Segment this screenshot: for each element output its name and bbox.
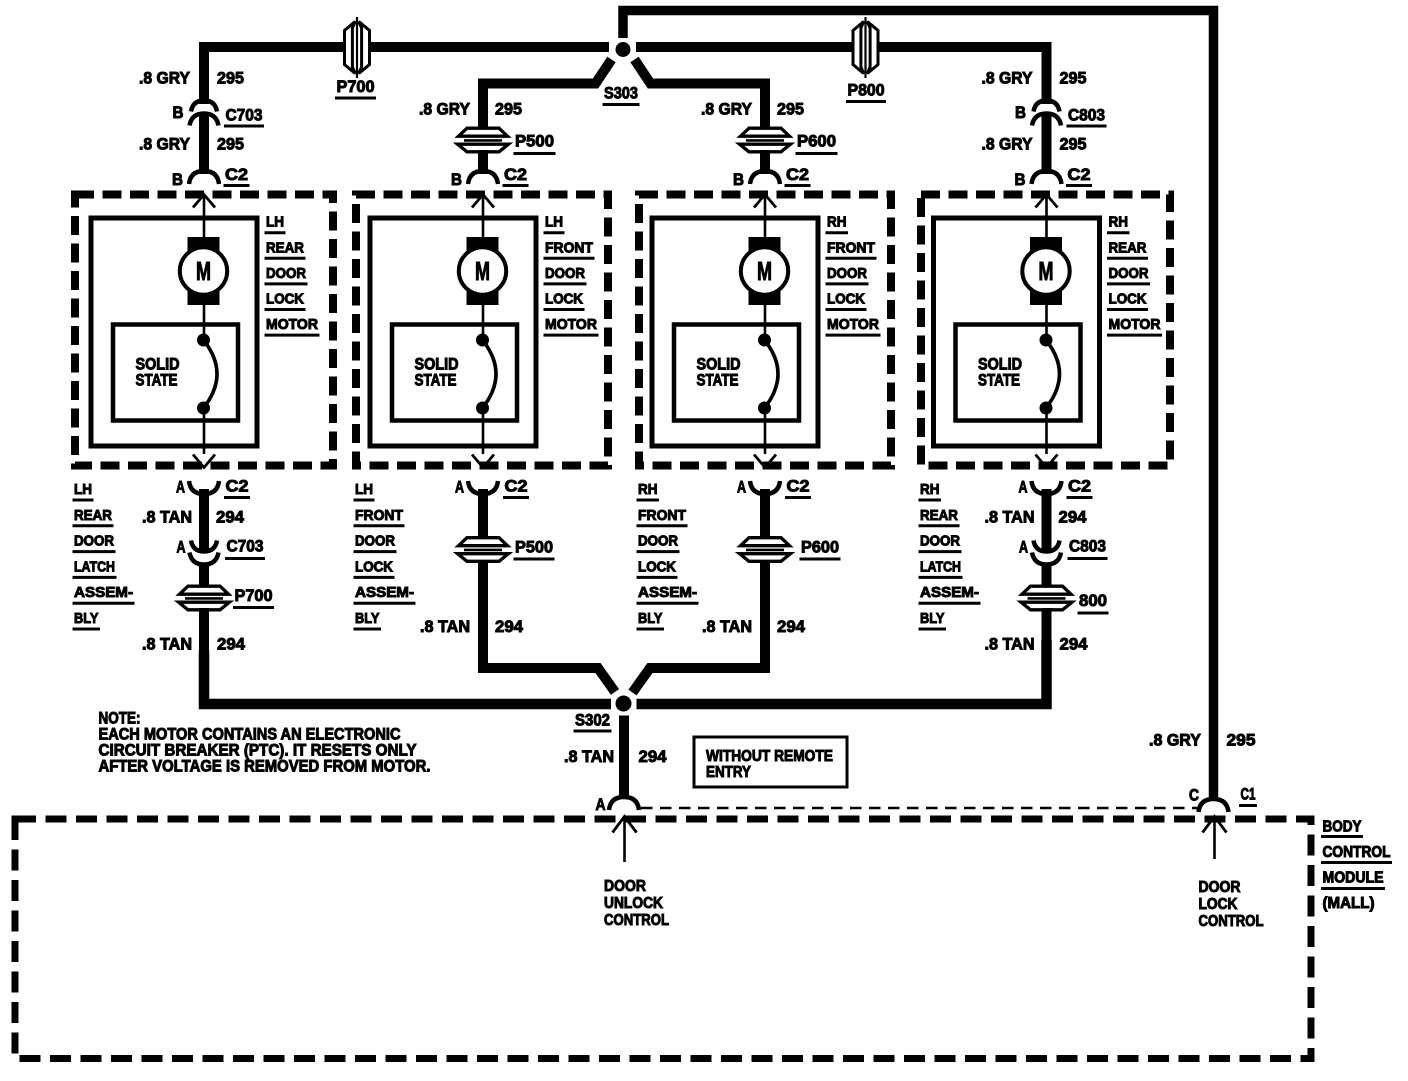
inline connector P700 [182,594,226,603]
svg-text:REAR: REAR [920,507,958,524]
connector C803 pin A (in-line) [1034,541,1060,552]
svg-text:C803: C803 [1068,106,1105,125]
connector: BCM pin A bell [609,797,639,810]
svg-text:RH: RH [1109,214,1129,231]
lock motor M [1030,237,1062,305]
arrow into box (top) [472,195,494,208]
dashed box: LH REAR DOOR LOCK MOTOR assembly [75,195,333,466]
wire below P500 to C2 [478,150,488,174]
svg-text:LH: LH [266,214,284,231]
svg-text:M: M [1039,256,1054,286]
svg-text:LOCK: LOCK [545,291,583,308]
solid state box [392,325,517,421]
svg-text:ASSEM-: ASSEM- [638,584,697,601]
svg-text:ENTRY: ENTRY [706,764,751,781]
svg-text:295: 295 [777,100,804,119]
solid inner box [934,218,1100,446]
wire motor to solid state switch [203,305,206,340]
svg-text:C2: C2 [226,477,249,496]
svg-text:295: 295 [217,135,244,154]
svg-text:P600: P600 [797,132,836,151]
wire motor to solid state switch [764,305,767,340]
svg-text:C: C [1189,786,1199,805]
wire switch to box exit [1045,408,1048,454]
arrow out of box (bottom) [754,455,776,468]
solid inner box [91,218,257,446]
arrow out of box (bottom) [472,455,494,468]
svg-text:.8 GRY: .8 GRY [139,135,191,154]
connector C2 pin B (motor box entry) [1032,171,1062,184]
dashed box: RH REAR DOOR LOCK MOTOR assembly [921,195,1170,466]
arrow into box (top) [193,195,215,208]
dashed box: LH FRONT DOOR LOCK MOTOR assembly [356,195,608,466]
svg-text:UNLOCK: UNLOCK [604,895,663,912]
arrow: door unlock control input [613,817,637,833]
svg-text:.8 GRY: .8 GRY [139,69,191,88]
svg-text:DOOR: DOOR [355,533,395,550]
wire .8 TAN 294 down [760,560,770,640]
inline connector P700 on bus [352,23,361,73]
svg-text:CONTROL: CONTROL [604,912,669,929]
svg-text:C2: C2 [787,477,810,496]
svg-text:DOOR: DOOR [638,533,678,550]
svg-text:295: 295 [217,69,244,88]
svg-text:CONTROL: CONTROL [1199,913,1264,930]
wire switch to box exit [764,408,767,454]
svg-text:294: 294 [495,617,524,636]
arrow into box (top) [754,195,776,208]
svg-text:STATE: STATE [978,372,1020,390]
svg-text:A: A [455,478,464,497]
wire: GRY 295 bus left segment (LH REAR corner to S303) [204,47,609,104]
wire: TAN 294 bus (LH REAR corner to S302) [204,650,611,704]
svg-text:295: 295 [1227,731,1256,750]
svg-text:295: 295 [495,100,522,119]
svg-text:C703: C703 [226,106,263,125]
svg-text:ASSEM-: ASSEM- [355,584,414,601]
svg-text:C803: C803 [1069,537,1106,556]
svg-text:LH: LH [545,214,563,231]
arrow: door lock control input [1203,817,1227,833]
wire .8 GRY 295 (C703 to C2) [199,115,209,174]
svg-text:ASSEM-: ASSEM- [920,584,979,601]
wire: TAN 294 bus (S302 to RH REAR corner) [637,640,1047,704]
svg-text:MODULE: MODULE [1323,870,1384,887]
svg-text:BODY: BODY [1323,819,1363,836]
solid state box [956,325,1081,421]
wire switch to box exit [482,408,485,454]
svg-text:A: A [1019,538,1028,557]
svg-text:C2: C2 [1068,477,1091,496]
inline connector P600 (bottom) [743,546,787,555]
svg-text:STATE: STATE [136,372,178,390]
svg-text:P500: P500 [515,538,553,557]
svg-text:B: B [172,170,183,189]
svg-text:LOCK: LOCK [266,291,304,308]
inline connector P500 (bottom) [461,546,505,555]
splice S303 [616,42,631,57]
svg-text:DOOR: DOOR [545,265,585,282]
svg-text:BLY: BLY [74,610,99,627]
connector C703 pin A (in-line) [191,541,217,552]
wire .8 TAN 294 (C2 to C703) [199,489,209,550]
svg-text:DOOR: DOOR [827,265,867,282]
svg-text:P600: P600 [801,538,839,557]
wire motor to solid state switch [482,305,485,340]
svg-text:LATCH: LATCH [920,558,961,575]
wire motor to solid state switch [1045,305,1048,340]
svg-text:DOOR: DOOR [266,265,306,282]
wire below P600 to C2 [760,150,770,174]
svg-text:294: 294 [216,508,245,527]
svg-text:DOOR: DOOR [604,878,646,895]
svg-text:REAR: REAR [266,239,304,256]
svg-text:WITHOUT REMOTE: WITHOUT REMOTE [706,748,833,765]
svg-text:DOOR: DOOR [1109,265,1149,282]
svg-text:BLY: BLY [355,610,380,627]
wire .8 TAN 294 (C2 to C803) [1042,489,1052,550]
thin dashed connector face line between A and C1 [641,807,1198,810]
svg-text:STATE: STATE [415,372,457,390]
svg-text:MOTOR: MOTOR [827,316,879,333]
wire: top feed from S303 to BCM C1 (right side) [623,11,1214,798]
wire: LH FRONT branch to S302 [483,636,615,692]
svg-text:LOCK: LOCK [827,291,865,308]
svg-text:DOOR: DOOR [920,533,960,550]
svg-text:294: 294 [1059,508,1088,527]
svg-text:REAR: REAR [1109,239,1147,256]
inline connector 800 [1025,594,1069,603]
svg-text:A: A [737,478,746,497]
svg-text:S302: S302 [575,711,610,730]
connector: BCM pin C / C1 bell [1199,799,1229,812]
svg-text:.8 GRY: .8 GRY [701,100,753,119]
svg-text:P800: P800 [848,81,885,100]
dashed box: body control module [15,819,1311,1059]
svg-text:C2: C2 [504,165,527,184]
svg-text:(MALL): (MALL) [1323,895,1375,912]
inline connector P600 (top) [743,136,787,145]
solid inner box [370,218,536,446]
svg-text:294: 294 [1060,635,1089,654]
svg-text:A: A [1019,478,1028,497]
svg-text:LOCK: LOCK [355,558,393,575]
svg-text:C2: C2 [225,165,248,184]
solid inner box [652,218,818,446]
svg-text:FRONT: FRONT [545,239,593,256]
svg-text:REAR: REAR [74,507,112,524]
arrow out of box (bottom) [193,455,215,468]
svg-text:RH: RH [827,214,847,231]
wire S302 to BCM pin A [619,716,629,798]
svg-text:.8 GRY: .8 GRY [982,135,1034,154]
svg-text:AFTER VOLTAGE IS REMOVED FROM: AFTER VOLTAGE IS REMOVED FROM MOTOR. [99,758,431,776]
svg-text:MOTOR: MOTOR [1109,316,1161,333]
svg-text:C2: C2 [786,165,809,184]
connector C2 pin B (motor box entry) [750,171,780,184]
solid state switch contacts [758,334,771,347]
connector C703 (in-line, pin B) [191,101,217,112]
svg-text:M: M [757,256,772,286]
svg-text:LH: LH [355,481,373,498]
note box: WITHOUT REMOTE ENTRY [694,737,847,787]
svg-text:BLY: BLY [920,610,945,627]
splice S302 [616,696,632,712]
svg-text:294: 294 [777,617,806,636]
svg-text:CONTROL: CONTROL [1323,844,1391,861]
svg-text:RH: RH [920,481,940,498]
svg-text:.8 TAN: .8 TAN [985,508,1035,527]
wire .8 GRY 295 (C803 to C2) [1042,115,1052,174]
svg-text:.8 TAN: .8 TAN [702,617,752,636]
svg-text:B: B [1015,103,1026,122]
inline connector P800 on bus [861,23,870,73]
svg-text:S303: S303 [604,84,638,103]
wire C2 to P500 [478,489,488,538]
svg-text:FRONT: FRONT [638,507,686,524]
svg-text:A: A [176,478,185,497]
svg-text:294: 294 [217,635,246,654]
svg-text:M: M [475,256,490,286]
svg-text:P700: P700 [337,77,375,96]
svg-text:C1: C1 [1241,785,1256,804]
wire .8 TAN 294 to bus [1042,608,1052,704]
svg-text:A: A [596,795,606,814]
wire: GRY 295 bus right segment (S303 to RH REAR corner) [636,47,1047,104]
svg-text:P700: P700 [235,586,273,605]
svg-text:LOCK: LOCK [638,558,676,575]
svg-text:800: 800 [1079,591,1107,610]
svg-text:MOTOR: MOTOR [545,316,597,333]
solid state box [113,325,238,421]
svg-text:LOCK: LOCK [1199,896,1238,913]
wire switch to box exit [203,408,206,454]
arrow out of box (bottom) [1036,455,1058,468]
svg-text:B: B [1015,170,1026,189]
svg-text:294: 294 [639,747,668,766]
svg-text:P500: P500 [515,132,554,151]
wire .8 TAN 294 down [478,560,488,640]
svg-text:.8 TAN: .8 TAN [420,617,470,636]
wire to barrel connector [199,563,209,587]
svg-text:RH: RH [638,481,658,498]
svg-text:.8 TAN: .8 TAN [985,635,1035,654]
wire C2 to P600 [760,489,770,538]
svg-text:MOTOR: MOTOR [266,316,318,333]
svg-text:DOOR: DOOR [1199,879,1241,896]
svg-text:FRONT: FRONT [827,239,875,256]
connector C2 pin A (motor box exit) [189,481,219,494]
svg-text:.8 TAN: .8 TAN [564,747,614,766]
svg-text:LATCH: LATCH [74,558,115,575]
svg-text:C2: C2 [505,477,528,496]
connector C2 pin A (motor box exit) [750,481,780,494]
connector C2 pin B (motor box entry) [468,171,498,184]
svg-text:BLY: BLY [638,610,663,627]
svg-text:LOCK: LOCK [1109,291,1147,308]
svg-text:.8 GRY: .8 GRY [982,69,1034,88]
wire to barrel connector [1042,563,1052,587]
svg-text:FRONT: FRONT [355,507,403,524]
inline connector P500 (top) [461,136,505,145]
svg-text:C703: C703 [227,537,264,556]
solid state switch contacts [197,334,210,347]
lock motor M [188,237,220,305]
svg-text:295: 295 [1060,69,1087,88]
svg-text:STATE: STATE [697,372,739,390]
dashed box: RH FRONT DOOR LOCK MOTOR assembly [639,195,891,466]
connector C2 pin A (motor box exit) [1032,481,1062,494]
svg-text:.8 TAN: .8 TAN [142,508,192,527]
svg-text:.8 GRY: .8 GRY [1149,731,1202,750]
wire: S303 diagonal to LH FRONT branch [483,60,612,129]
svg-text:ASSEM-: ASSEM- [74,584,133,601]
lock motor M [749,237,781,305]
lock motor M [467,237,499,305]
solid state box [674,325,799,421]
connector C2 pin A (motor box exit) [468,481,498,494]
svg-text:B: B [733,170,744,189]
svg-text:B: B [173,103,184,122]
solid state switch contacts [476,334,489,347]
wire: S303 diagonal to RH FRONT branch [635,60,766,129]
wire .8 TAN 294 to bus [199,608,209,704]
arrow into box (top) [1036,195,1058,208]
svg-text:DOOR: DOOR [74,533,114,550]
svg-text:.8 GRY: .8 GRY [419,100,471,119]
svg-text:B: B [451,170,462,189]
svg-text:A: A [177,538,186,557]
connector C803 (in-line, pin B) [1034,101,1060,112]
svg-text:.8 TAN: .8 TAN [142,635,192,654]
svg-text:LH: LH [74,481,92,498]
svg-text:295: 295 [1060,135,1087,154]
svg-text:C2: C2 [1068,165,1091,184]
svg-text:M: M [196,256,211,286]
connector C2 pin B (motor box entry) [189,171,219,184]
wire: RH FRONT branch to S302 [633,636,766,693]
solid state switch contacts [1040,334,1053,347]
